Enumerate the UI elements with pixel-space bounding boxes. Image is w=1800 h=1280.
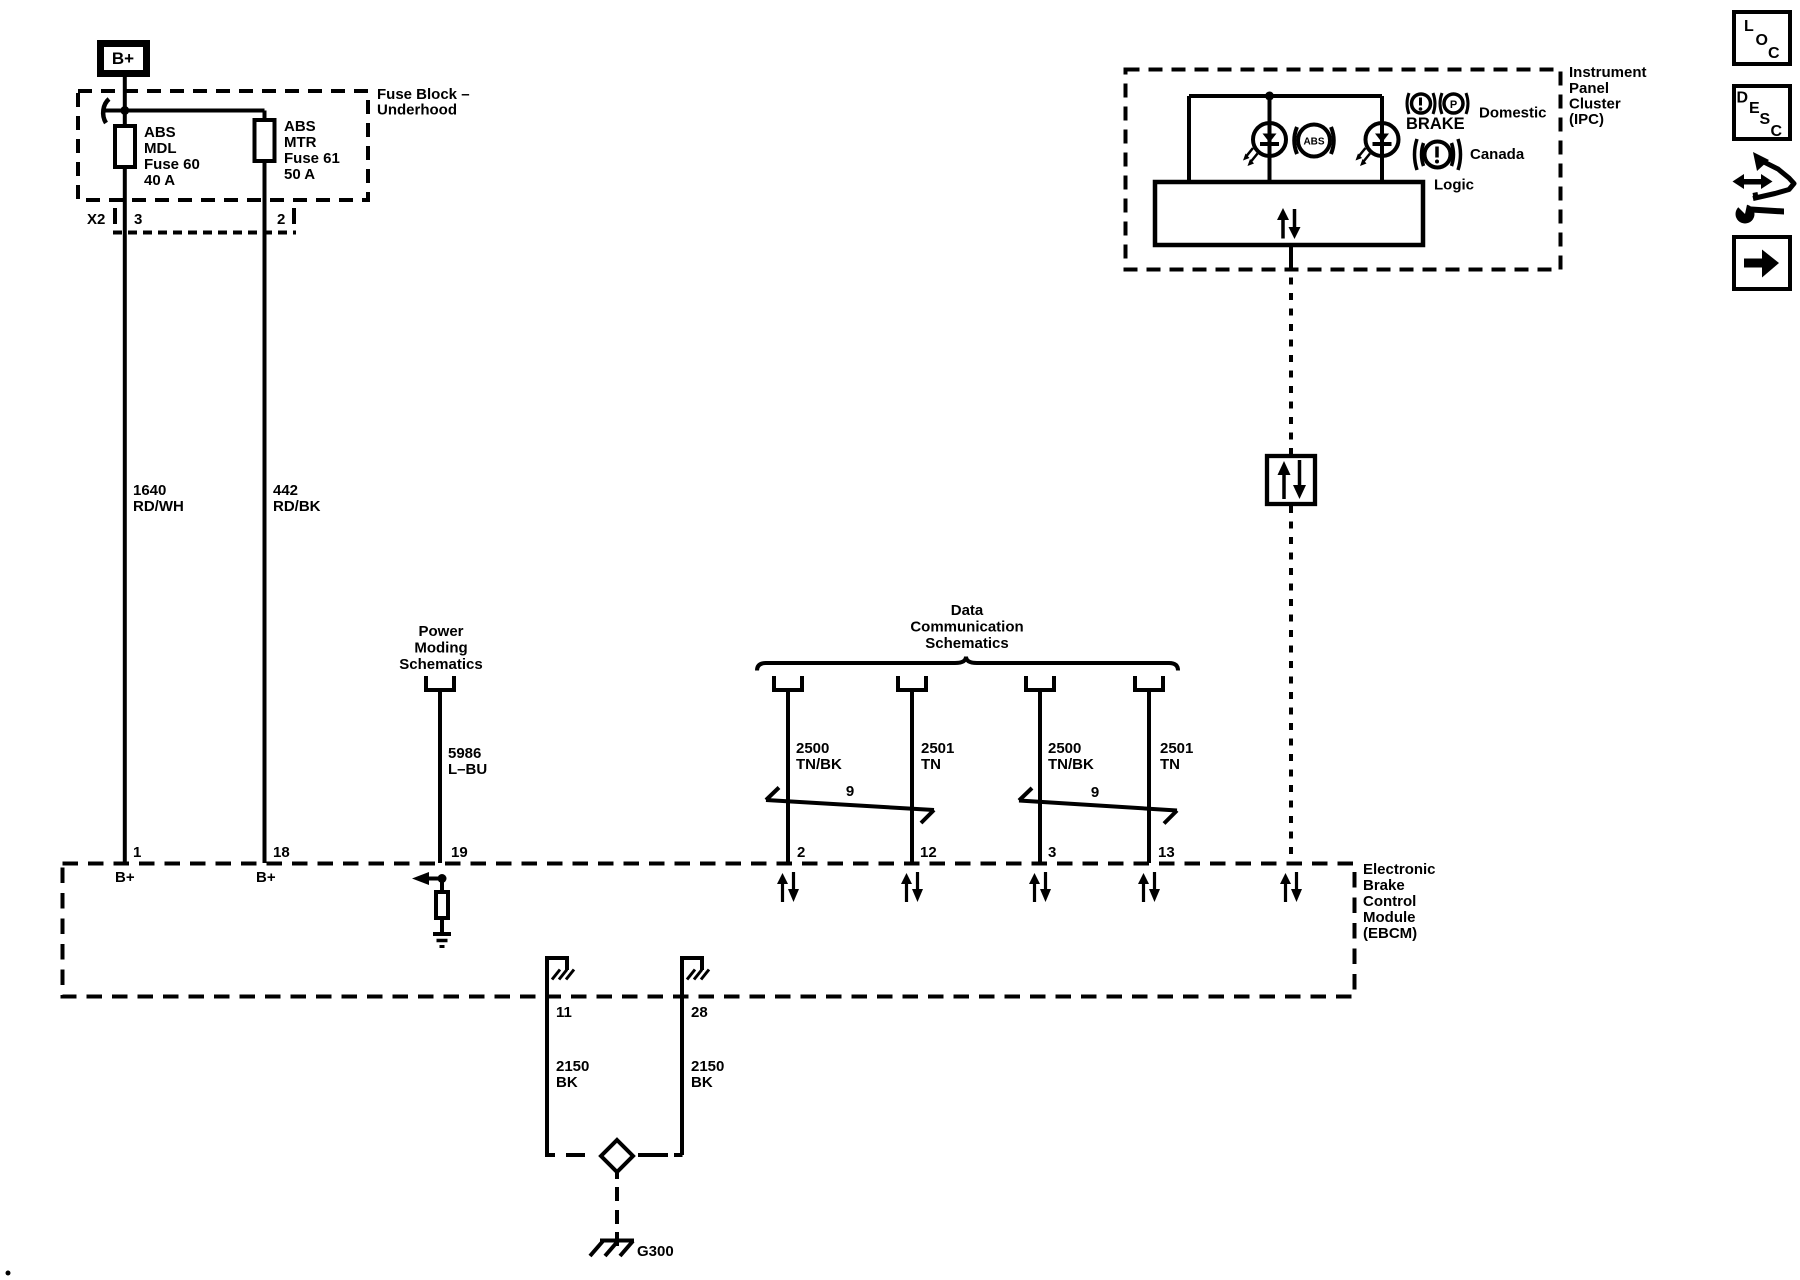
svg-text:40 A: 40 A (144, 172, 175, 189)
svg-text:C: C (1771, 123, 1783, 140)
dashed wire IPC to serial box (1289, 262, 1293, 454)
internal resistor (436, 879, 448, 933)
wire 2150 BK label a (556, 1058, 589, 1091)
page artifact dot (6, 1271, 11, 1276)
svg-text:28: 28 (691, 1004, 708, 1021)
BRAKE indicator bulb (1356, 123, 1399, 166)
fuse block underhood dashed box (78, 91, 368, 200)
IPC top bus wire (1189, 94, 1382, 98)
svg-text:Fuse 60: Fuse 60 (144, 156, 200, 173)
svg-text:Panel: Panel (1569, 80, 1609, 97)
dashed wire to G300 (615, 1172, 619, 1246)
svg-text:Electronic: Electronic (1363, 861, 1436, 878)
svg-text:5986: 5986 (448, 745, 481, 762)
wire 2501 TN (pin 13) (1147, 690, 1151, 863)
fuse F61 label (284, 118, 340, 183)
svg-text:MDL: MDL (144, 140, 177, 157)
EBCM label (1363, 861, 1436, 942)
svg-text:TN: TN (1160, 756, 1180, 773)
canada brake telltale symbol (1415, 139, 1461, 170)
data connector 4 (1135, 676, 1163, 690)
ground G300 (590, 1241, 634, 1257)
svg-text:Moding: Moding (414, 640, 467, 657)
svg-text:442: 442 (273, 482, 298, 499)
wire 5986 L-BU (438, 690, 442, 863)
data communication schematics label (910, 602, 1023, 652)
svg-text:B+: B+ (115, 869, 135, 886)
wire bus to fuse 61 (104, 109, 265, 113)
ABS indicator bulb wire (1268, 96, 1272, 180)
twisted pair symbol b (1019, 788, 1177, 824)
junction node on bus (1265, 92, 1274, 101)
dashed wire serial box to EBCM (1289, 506, 1293, 863)
splice diamond (601, 1140, 633, 1172)
svg-text:Schematics: Schematics (399, 656, 482, 673)
brace over data communication connectors (757, 657, 1178, 671)
IPC dashed box (1126, 70, 1561, 270)
serial box updown arrows (1278, 460, 1307, 499)
svg-text:TN/BK: TN/BK (796, 756, 842, 773)
svg-text:Data: Data (951, 602, 984, 619)
icon forward arrow (1744, 250, 1779, 278)
svg-text:Canada: Canada (1470, 146, 1525, 163)
fuse F60 (115, 126, 135, 167)
svg-text:(IPC): (IPC) (1569, 111, 1604, 128)
svg-text:Communication: Communication (910, 619, 1023, 636)
IPC logic box (1155, 182, 1423, 245)
svg-text:RD/BK: RD/BK (273, 498, 321, 515)
ground hook pin 28 (680, 956, 709, 980)
svg-text:Brake: Brake (1363, 877, 1405, 894)
wire 2500 TN/BK label a (796, 740, 842, 773)
svg-text:Underhood: Underhood (377, 102, 457, 119)
svg-text:Power: Power (418, 623, 463, 640)
svg-text:19: 19 (451, 844, 468, 861)
wire from logic box (1289, 247, 1293, 262)
data connector 3 (1026, 676, 1054, 690)
wire 2501 TN (pin 12) (910, 690, 914, 863)
svg-text:TN/BK: TN/BK (1048, 756, 1094, 773)
icon LOC box (1734, 12, 1790, 64)
svg-text:Control: Control (1363, 893, 1416, 910)
svg-text:O: O (1756, 32, 1768, 49)
svg-text:MTR: MTR (284, 134, 317, 151)
connector X2 dashes (113, 208, 296, 233)
svg-text:L–BU: L–BU (448, 761, 487, 778)
pin updown arrows 13 (1138, 872, 1160, 902)
serial data updown box (1267, 456, 1315, 504)
svg-text:2150: 2150 (556, 1058, 589, 1075)
svg-text:2500: 2500 (1048, 740, 1081, 757)
svg-text:1640: 1640 (133, 482, 166, 499)
power moding schematics label (399, 623, 482, 673)
svg-text:(EBCM): (EBCM) (1363, 925, 1417, 942)
wire 2500 TN/BK (pin 2) (786, 690, 790, 863)
svg-text:Schematics: Schematics (925, 635, 1008, 652)
svg-text:ABS: ABS (1303, 137, 1324, 148)
svg-text:Module: Module (1363, 909, 1416, 926)
fuse F60 label (144, 124, 200, 189)
svg-text:18: 18 (273, 844, 290, 861)
svg-text:L: L (1744, 18, 1754, 35)
power moding connector (426, 676, 454, 690)
pin updown arrows 12 (901, 872, 923, 902)
svg-text:2501: 2501 (1160, 740, 1193, 757)
svg-text:Cluster: Cluster (1569, 96, 1621, 113)
EBCM dashed box (63, 864, 1355, 997)
wire from B+ to fuse 60 and EBCM pin 1 (123, 77, 127, 863)
svg-text:D: D (1737, 90, 1749, 107)
data connector 1 (774, 676, 802, 690)
svg-text:E: E (1749, 100, 1760, 117)
wire 442 RD/BK label (273, 482, 321, 515)
svg-text:S: S (1760, 111, 1771, 128)
B+ power symbol (101, 44, 147, 74)
ground wire pin 28 (680, 958, 684, 1155)
svg-text:X2: X2 (87, 211, 105, 228)
svg-text:3: 3 (1048, 844, 1056, 861)
pin 19 internal arrow (412, 872, 447, 885)
icon LOC letters (1744, 18, 1780, 62)
svg-text:TN: TN (921, 756, 941, 773)
svg-text:Fuse Block –: Fuse Block – (377, 86, 470, 103)
bottom joint wires to splice (545, 1153, 683, 1155)
ground wire pin 11 (545, 958, 549, 1155)
svg-text:Logic: Logic (1434, 177, 1474, 194)
svg-text:Fuse 61: Fuse 61 (284, 150, 340, 167)
pin updown arrows 2 (777, 872, 799, 902)
svg-text:RD/WH: RD/WH (133, 498, 184, 515)
svg-text:2: 2 (797, 844, 805, 861)
pin updown arrows serial (1280, 872, 1302, 902)
svg-text:13: 13 (1158, 844, 1175, 861)
pin updown arrows 3 (1029, 872, 1051, 902)
fuse F61 (255, 120, 275, 161)
wire 5986 L-BU label (448, 745, 487, 778)
wire 2501 TN label a (921, 740, 954, 773)
svg-text:Domestic: Domestic (1479, 105, 1547, 122)
svg-text:2501: 2501 (921, 740, 954, 757)
svg-text:2150: 2150 (691, 1058, 724, 1075)
junction node (120, 106, 129, 115)
icon harness routing arrow (1733, 152, 1795, 224)
svg-text:B+: B+ (112, 49, 134, 68)
wire 2150 BK label b (691, 1058, 724, 1091)
ground hook pin 11 (545, 956, 574, 980)
logic box updown arrows (1277, 208, 1301, 239)
internal ground (433, 934, 451, 947)
IPC label (1569, 64, 1647, 128)
svg-text:12: 12 (920, 844, 937, 861)
BRAKE indicator bulb wire (1380, 96, 1384, 180)
ABS telltale symbol (1294, 125, 1334, 157)
svg-text:2: 2 (277, 211, 285, 228)
data connector 2 (898, 676, 926, 690)
svg-text:G300: G300 (637, 1243, 674, 1260)
fusible link curl (103, 99, 109, 123)
wire 2500 TN/BK label b (1048, 740, 1094, 773)
wire from bus through fuse 61 to EBCM pin 18 (263, 111, 267, 864)
icon forward arrow box (1734, 237, 1790, 289)
svg-text:3: 3 (134, 211, 142, 228)
svg-text:P: P (1450, 99, 1457, 111)
svg-text:2500: 2500 (796, 740, 829, 757)
icon DESC box (1734, 86, 1790, 139)
svg-text:ABS: ABS (284, 118, 316, 135)
svg-text:ABS: ABS (144, 124, 176, 141)
wire 2500 TN/BK (pin 3) (1038, 690, 1042, 863)
svg-text:C: C (1768, 45, 1780, 62)
wire 1640 RD/WH label (133, 482, 184, 515)
svg-text:B+: B+ (256, 869, 276, 886)
svg-text:BRAKE: BRAKE (1406, 115, 1465, 133)
IPC left wire (1187, 96, 1191, 180)
svg-text:BK: BK (556, 1074, 578, 1091)
twisted pair symbol a (766, 788, 934, 824)
domestic brake telltale symbols (1407, 93, 1468, 114)
svg-text:Instrument: Instrument (1569, 64, 1647, 81)
svg-text:11: 11 (556, 1004, 572, 1021)
svg-text:BK: BK (691, 1074, 713, 1091)
svg-text:9: 9 (1091, 784, 1099, 801)
svg-text:50 A: 50 A (284, 166, 315, 183)
wire 2501 TN label b (1160, 740, 1193, 773)
icon DESC letters (1737, 90, 1783, 141)
ABS indicator bulb (1243, 123, 1286, 166)
svg-text:9: 9 (846, 783, 854, 800)
svg-text:1: 1 (133, 844, 141, 861)
